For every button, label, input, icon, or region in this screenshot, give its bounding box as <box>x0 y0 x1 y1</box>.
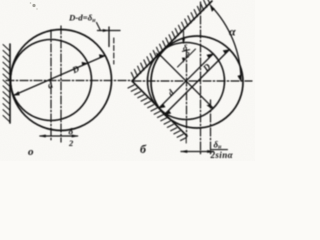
circle d (left figure, small) <box>11 40 92 121</box>
lower V face hatching <box>128 85 187 141</box>
top dimension arrow <box>103 29 109 32</box>
left wall <box>9 44 11 123</box>
delta/2 dimension upper segment (right figure) <box>183 31 185 43</box>
vertical reference line for bottom dimension (right) <box>210 100 212 154</box>
circle D (right figure, large) <box>151 36 243 128</box>
bottom left arrow <box>39 135 46 138</box>
arrow upper-right of d line <box>207 54 214 59</box>
speck <box>32 4 35 7</box>
vertical centerline small circle (left) <box>50 30 52 142</box>
lower V face <box>132 81 187 136</box>
arrow lower-left of d line <box>159 104 166 109</box>
top dimension line D-d (left figure) <box>98 30 121 32</box>
angle arc arrow at face <box>210 5 215 12</box>
diameter dimension line d (right figure, 45 deg) <box>159 54 213 108</box>
vertical centerline large circle (left) <box>60 26 62 142</box>
arrow for d at small circle edge <box>82 62 88 66</box>
angle arc arrow at centerline <box>237 75 241 82</box>
fraction bar of delta/2 (right figure) <box>182 50 190 52</box>
vertical centerline large circle (right) <box>200 2 202 154</box>
arrow lower-left of D line <box>164 110 171 115</box>
angle dimension arc alpha <box>210 5 241 81</box>
left wall hatching <box>3 45 10 123</box>
arrow at lower-left end of diameter line <box>13 91 20 95</box>
top dimension extension line <box>108 27 110 47</box>
top dimension second extension line <box>113 38 115 64</box>
fraction bar of bottom label <box>212 149 228 151</box>
top dimension leader (left figure) <box>97 23 101 31</box>
bottom right arrow <box>72 135 79 138</box>
circle D (left figure, large) <box>11 30 112 131</box>
arrow upper-left of perpendicular d line <box>154 51 161 58</box>
delta/2 lower arrow pointing down <box>182 58 185 63</box>
diameter dimension line d perpendicular (right figure, -45 deg) <box>159 54 213 108</box>
horizontal centerline (left figure) <box>6 80 131 82</box>
delta/2 upper arrow pointing down <box>182 39 185 44</box>
diameter dimension line d/D (left figure) <box>14 56 106 96</box>
diameter dimension line D (right figure, 45 deg) <box>165 50 230 115</box>
circle d (right figure, small) <box>148 43 225 120</box>
bottom dimension line (right figure) <box>181 151 214 153</box>
arrow lower-right of perpendicular d line <box>206 103 213 110</box>
upper V face <box>132 1 212 81</box>
arrow for D at large circle edge <box>99 54 105 58</box>
horizontal centerline (right figure) <box>133 80 252 82</box>
upper V face hatching <box>131 0 210 80</box>
bottom dimension line delta/2 (left figure) <box>40 135 78 137</box>
short 45 construction line near delta/2 <box>178 49 196 67</box>
bottom dimension right arrow <box>207 150 214 153</box>
bottom dimension left arrow <box>180 150 187 153</box>
paper grain overlay <box>0 0 255 161</box>
arrow upper-right of D line <box>223 49 230 54</box>
extension tick at lower face end <box>185 135 187 143</box>
vertical centerline small circle (right) <box>186 50 188 135</box>
